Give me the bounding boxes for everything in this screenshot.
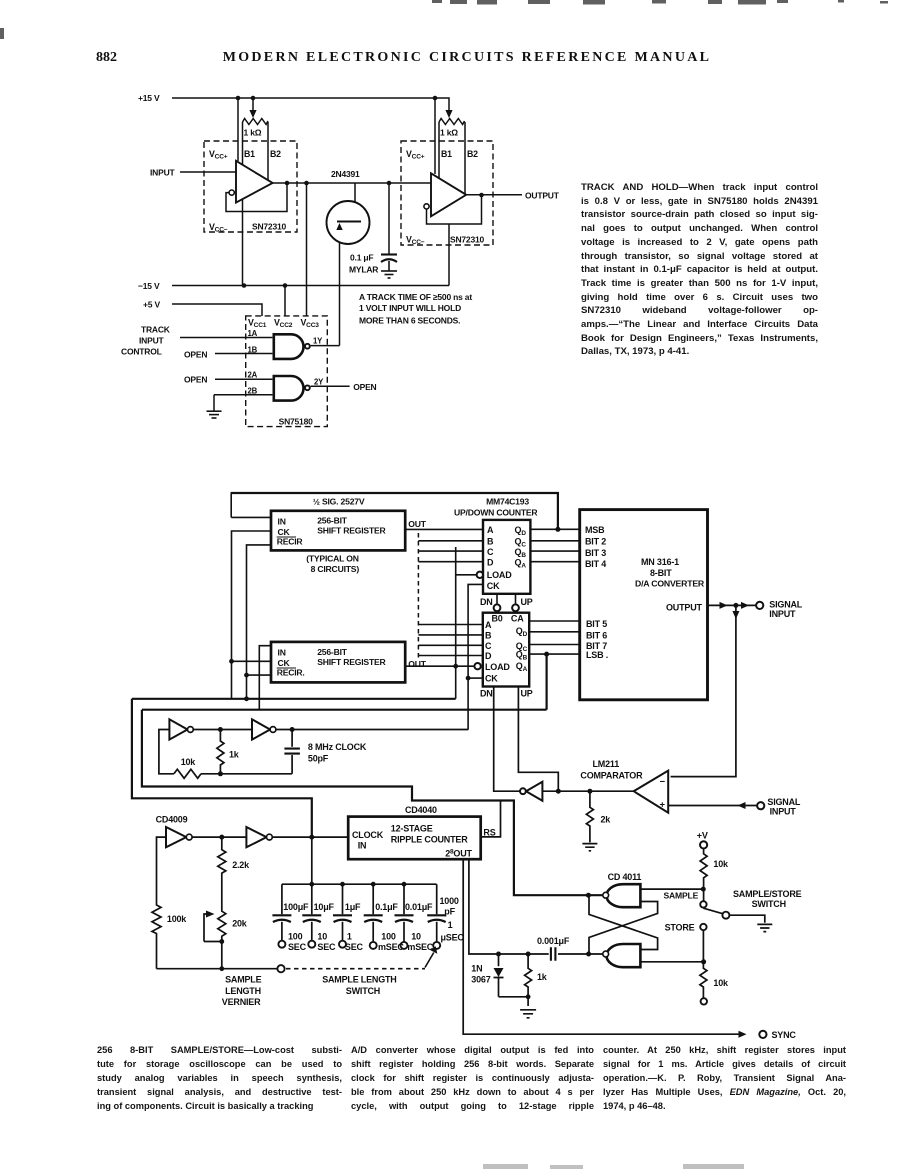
svg-text:100: 100 bbox=[288, 932, 303, 942]
svg-text:10k: 10k bbox=[181, 757, 197, 767]
svg-text:A: A bbox=[487, 525, 494, 535]
svg-text:MSB: MSB bbox=[585, 525, 605, 535]
svg-text:+15 V: +15 V bbox=[138, 93, 160, 103]
svg-text:1: 1 bbox=[347, 932, 352, 942]
svg-text:256-BIT: 256-BIT bbox=[317, 516, 348, 526]
svg-text:SAMPLE: SAMPLE bbox=[664, 891, 699, 901]
svg-text:D/A CONVERTER: D/A CONVERTER bbox=[635, 579, 705, 589]
svg-text:MORE THAN 6 SECONDS.: MORE THAN 6 SECONDS. bbox=[359, 316, 460, 326]
svg-text:IN: IN bbox=[278, 517, 286, 527]
svg-text:INPUT: INPUT bbox=[770, 807, 797, 817]
svg-text:LOAD: LOAD bbox=[485, 662, 510, 672]
svg-text:C: C bbox=[485, 641, 492, 651]
svg-text:0.1 μF: 0.1 μF bbox=[350, 253, 373, 263]
svg-text:VCC−: VCC− bbox=[209, 222, 228, 234]
svg-text:BIT 6: BIT 6 bbox=[586, 631, 607, 641]
svg-text:MM74C193: MM74C193 bbox=[486, 497, 529, 507]
svg-text:10k: 10k bbox=[713, 978, 729, 988]
svg-text:D: D bbox=[487, 558, 494, 568]
svg-text:0.1μF: 0.1μF bbox=[375, 902, 398, 912]
svg-text:10: 10 bbox=[317, 932, 327, 942]
svg-text:1N: 1N bbox=[471, 964, 482, 974]
svg-text:1 kΩ: 1 kΩ bbox=[244, 128, 262, 138]
svg-text:1000: 1000 bbox=[440, 896, 459, 906]
svg-text:SIGNAL: SIGNAL bbox=[769, 600, 803, 610]
svg-text:BIT 2: BIT 2 bbox=[585, 537, 606, 547]
svg-text:SEC: SEC bbox=[317, 942, 336, 952]
svg-text:1Y: 1Y bbox=[313, 337, 323, 346]
svg-text:B2: B2 bbox=[467, 149, 478, 159]
svg-text:INPUT: INPUT bbox=[769, 609, 796, 619]
svg-text:LSB .: LSB . bbox=[586, 650, 608, 660]
svg-text:−: − bbox=[660, 777, 666, 788]
svg-text:(TYPICAL ON: (TYPICAL ON bbox=[306, 554, 359, 564]
svg-text:BIT 4: BIT 4 bbox=[585, 559, 606, 569]
svg-text:RECIR: RECIR bbox=[277, 536, 304, 546]
svg-text:SAMPLE LENGTH: SAMPLE LENGTH bbox=[322, 975, 396, 985]
svg-text:3067: 3067 bbox=[471, 975, 490, 985]
svg-text:pF: pF bbox=[444, 907, 455, 917]
svg-text:2Y: 2Y bbox=[314, 378, 324, 387]
svg-text:2.2k: 2.2k bbox=[232, 860, 250, 870]
svg-text:8-BIT: 8-BIT bbox=[650, 568, 672, 578]
svg-text:1μF: 1μF bbox=[345, 902, 361, 912]
svg-text:IN: IN bbox=[358, 841, 367, 851]
svg-text:DN: DN bbox=[480, 597, 493, 607]
svg-text:SHIFT REGISTER: SHIFT REGISTER bbox=[317, 526, 386, 536]
svg-text:+: + bbox=[660, 800, 666, 811]
svg-text:RIPPLE COUNTER: RIPPLE COUNTER bbox=[391, 835, 468, 845]
svg-text:C: C bbox=[487, 547, 494, 557]
svg-text:UP: UP bbox=[521, 689, 533, 699]
svg-text:UP: UP bbox=[521, 597, 533, 607]
svg-text:SN72310: SN72310 bbox=[252, 222, 287, 232]
svg-text:QA: QA bbox=[516, 661, 528, 673]
svg-text:10k: 10k bbox=[713, 859, 729, 869]
svg-text:B: B bbox=[485, 631, 492, 641]
svg-text:1A: 1A bbox=[248, 329, 258, 338]
svg-text:MN 316-1: MN 316-1 bbox=[641, 557, 679, 567]
svg-text:CLOCK: CLOCK bbox=[352, 830, 384, 840]
svg-text:VCC3: VCC3 bbox=[301, 318, 320, 330]
svg-text:INPUT: INPUT bbox=[139, 336, 165, 346]
svg-text:OUTPUT: OUTPUT bbox=[666, 603, 703, 613]
svg-text:OUT: OUT bbox=[408, 519, 426, 529]
svg-text:1k: 1k bbox=[229, 750, 240, 760]
svg-text:SEC: SEC bbox=[288, 942, 307, 952]
svg-text:CK: CK bbox=[487, 581, 500, 591]
svg-text:1k: 1k bbox=[537, 972, 548, 982]
svg-text:VERNIER: VERNIER bbox=[222, 997, 261, 1007]
svg-text:12-STAGE: 12-STAGE bbox=[391, 824, 433, 834]
svg-text:SN75180: SN75180 bbox=[279, 417, 314, 427]
svg-text:OPEN: OPEN bbox=[184, 350, 207, 360]
svg-text:mSEC: mSEC bbox=[407, 942, 433, 952]
svg-text:½ SIG. 2527V: ½ SIG. 2527V bbox=[313, 497, 365, 507]
svg-text:A: A bbox=[485, 620, 492, 630]
svg-text:SWITCH: SWITCH bbox=[346, 986, 380, 996]
svg-text:SAMPLE/STORE: SAMPLE/STORE bbox=[733, 889, 802, 899]
svg-text:LOAD: LOAD bbox=[487, 570, 512, 580]
svg-text:8 MHz CLOCK: 8 MHz CLOCK bbox=[308, 742, 367, 752]
svg-text:20k: 20k bbox=[232, 919, 248, 929]
svg-text:QD: QD bbox=[516, 626, 528, 638]
svg-text:2N4391: 2N4391 bbox=[331, 169, 360, 179]
svg-text:28OUT: 28OUT bbox=[445, 849, 472, 859]
svg-text:B1: B1 bbox=[244, 149, 255, 159]
svg-text:INPUT: INPUT bbox=[150, 168, 176, 178]
svg-text:mSEC: mSEC bbox=[378, 942, 404, 952]
svg-text:μSEC: μSEC bbox=[441, 933, 465, 943]
svg-text:OUT: OUT bbox=[408, 659, 426, 669]
svg-text:OPEN: OPEN bbox=[184, 375, 207, 385]
svg-text:RS: RS bbox=[483, 828, 495, 838]
svg-text:1: 1 bbox=[448, 920, 453, 930]
svg-text:100μF: 100μF bbox=[283, 902, 309, 912]
svg-text:+5 V: +5 V bbox=[143, 300, 160, 310]
svg-text:2k: 2k bbox=[601, 815, 612, 825]
svg-text:SEC: SEC bbox=[345, 942, 364, 952]
svg-text:VCC−: VCC− bbox=[406, 235, 425, 247]
svg-text:10: 10 bbox=[411, 932, 421, 942]
svg-text:10μF: 10μF bbox=[314, 902, 335, 912]
svg-text:100: 100 bbox=[381, 932, 396, 942]
svg-text:256-BIT: 256-BIT bbox=[317, 647, 348, 657]
svg-text:OPEN: OPEN bbox=[353, 382, 376, 392]
svg-text:VCC+: VCC+ bbox=[209, 149, 228, 161]
svg-text:CA: CA bbox=[511, 614, 524, 624]
svg-text:TRACK: TRACK bbox=[141, 325, 171, 335]
svg-text:VCC2: VCC2 bbox=[274, 318, 293, 330]
svg-text:1B: 1B bbox=[248, 346, 258, 355]
svg-text:100k: 100k bbox=[167, 914, 187, 924]
svg-text:RECIR.: RECIR. bbox=[277, 667, 305, 677]
svg-text:DN: DN bbox=[480, 689, 493, 699]
svg-text:SIGNAL: SIGNAL bbox=[767, 797, 801, 807]
svg-text:SWITCH: SWITCH bbox=[752, 899, 786, 909]
svg-text:VCC+: VCC+ bbox=[406, 149, 425, 161]
svg-text:8 CIRCUITS): 8 CIRCUITS) bbox=[311, 564, 360, 574]
svg-text:IN: IN bbox=[278, 648, 286, 658]
svg-text:CK: CK bbox=[485, 673, 498, 683]
svg-text:1 VOLT INPUT WILL HOLD: 1 VOLT INPUT WILL HOLD bbox=[359, 303, 461, 313]
svg-text:QA: QA bbox=[515, 558, 527, 570]
svg-text:CONTROL: CONTROL bbox=[121, 347, 162, 357]
svg-text:MYLAR: MYLAR bbox=[349, 265, 378, 275]
svg-text:2A: 2A bbox=[248, 371, 258, 380]
svg-text:50pF: 50pF bbox=[308, 754, 329, 764]
svg-text:COMPARATOR: COMPARATOR bbox=[580, 771, 643, 781]
svg-text:SAMPLE: SAMPLE bbox=[225, 975, 262, 985]
svg-text:SN72310: SN72310 bbox=[450, 235, 485, 245]
svg-text:LM211: LM211 bbox=[593, 759, 620, 769]
svg-text:CD4009: CD4009 bbox=[156, 815, 188, 825]
svg-text:SYNC: SYNC bbox=[772, 1030, 797, 1040]
svg-text:STORE: STORE bbox=[665, 923, 695, 933]
svg-text:B2: B2 bbox=[270, 149, 281, 159]
svg-text:D: D bbox=[485, 651, 492, 661]
svg-text:LENGTH: LENGTH bbox=[225, 986, 261, 996]
svg-text:VCC1: VCC1 bbox=[248, 318, 267, 330]
svg-text:BIT 5: BIT 5 bbox=[586, 619, 607, 629]
svg-text:OUTPUT: OUTPUT bbox=[525, 191, 560, 201]
svg-text:−15 V: −15 V bbox=[138, 281, 160, 291]
svg-text:0.001μF: 0.001μF bbox=[537, 936, 570, 946]
svg-text:2B: 2B bbox=[248, 387, 258, 396]
svg-text:B: B bbox=[487, 537, 494, 547]
svg-text:B1: B1 bbox=[441, 149, 452, 159]
svg-text:1 kΩ: 1 kΩ bbox=[440, 128, 458, 138]
svg-text:CD 4011: CD 4011 bbox=[608, 872, 642, 882]
svg-text:B0: B0 bbox=[492, 614, 503, 624]
svg-text:CD4040: CD4040 bbox=[405, 805, 437, 815]
svg-text:UP/DOWN COUNTER: UP/DOWN COUNTER bbox=[454, 508, 538, 518]
svg-text:SHIFT REGISTER: SHIFT REGISTER bbox=[317, 657, 386, 667]
svg-text:BIT 3: BIT 3 bbox=[585, 548, 606, 558]
svg-text:0.01μF: 0.01μF bbox=[405, 902, 433, 912]
svg-text:+V: +V bbox=[697, 831, 708, 841]
svg-text:QD: QD bbox=[515, 525, 527, 537]
svg-text:A TRACK TIME OF ≥500 ns at: A TRACK TIME OF ≥500 ns at bbox=[359, 292, 472, 302]
